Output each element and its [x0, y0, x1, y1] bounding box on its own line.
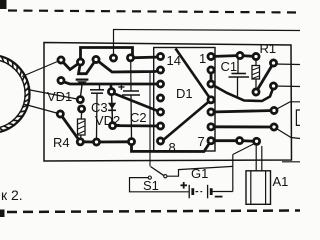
battery G1 [188, 185, 190, 199]
caption k 2. [1, 188, 23, 202]
wire mic to pad P1 [22, 60, 61, 77]
pad VD1 row [58, 77, 64, 83]
trace VD2 pad to pin6 [113, 124, 161, 127]
pad D1 pin4 [208, 97, 214, 103]
trace P3 to pin2 [96, 60, 161, 73]
label R4 [53, 136, 70, 149]
label S1 [143, 179, 159, 192]
wire right pad4 off-board [274, 127, 300, 139]
pad D1 pin9 [157, 123, 163, 129]
label D1 [176, 87, 193, 100]
dashed page border bottom [7, 211, 300, 213]
pad D1 pin5 [208, 109, 214, 115]
wire right pad3 off-board [274, 102, 300, 111]
device A1 leads [255, 146, 257, 171]
pad bottom mid [237, 138, 243, 144]
trace top detour P2 to P5 [81, 48, 133, 63]
trace pin16-pin15 vertical pair [210, 70, 213, 84]
page corner mark top-left [0, 0, 7, 9]
pad right 3 [271, 107, 277, 113]
device A1 body [246, 171, 271, 205]
pad D1 pin3 [208, 81, 214, 87]
label C2 [130, 111, 147, 124]
trace pin1 to C1 row [211, 56, 256, 57]
label A1 [273, 175, 289, 188]
label pin1 [199, 52, 206, 65]
pad right 4 [271, 124, 277, 130]
pad D1 pin14 [157, 53, 163, 59]
pad VD2 bottom [110, 123, 116, 129]
label pin7 [198, 135, 205, 148]
wire node vertical [232, 155, 234, 192]
wire top from pad P4 [114, 30, 301, 59]
microphone BM1 body (circle, cut at left edge) [0, 55, 30, 133]
pad right 2 [270, 83, 276, 89]
IC D1 outline [154, 48, 215, 152]
trace diagonal mic pad to R4 pad [60, 114, 80, 142]
pad R4 bottom [77, 139, 83, 145]
label G1 [191, 167, 208, 180]
pad P5 [127, 55, 133, 61]
capacitor C3 [99, 84, 101, 90]
wire mic to R4 row pad [24, 104, 61, 114]
pad D1 pin1 [208, 53, 214, 59]
wire battery minus to node [213, 191, 233, 193]
pad R1 top [253, 53, 259, 59]
pad mic lower [57, 111, 63, 117]
wire right pad2 off-board [274, 85, 300, 88]
label VD2 [95, 114, 120, 127]
trace bend pin15 to right pad [211, 84, 274, 101]
pad C3 bottom [93, 139, 99, 145]
microphone hatching ticks [0, 56, 30, 131]
pad P4 [110, 55, 116, 61]
pad P2 [77, 59, 83, 65]
net VD2 vertical [112, 92, 113, 126]
pad P1 [58, 57, 64, 63]
wire stub bottom right [282, 161, 300, 163]
trace D1 diagonal lower [162, 100, 211, 141]
trace row6 to right pad [211, 125, 274, 128]
pad D1 pin13 [157, 67, 163, 73]
pad P3 [93, 56, 99, 62]
stub VD2 top pad to row trace [110, 84, 113, 92]
pad VD1 bottom [77, 97, 83, 103]
pad VD2 top [108, 89, 114, 95]
pad right 1 [270, 60, 276, 66]
label VD1 [47, 90, 72, 103]
resistor R1 body [252, 66, 260, 80]
switch S1 [149, 72, 151, 167]
pad D1 pin2 [208, 67, 214, 73]
capacitor C1 [237, 56, 239, 74]
pad bottom A1 [254, 138, 260, 144]
battery minus sign [215, 196, 223, 198]
trace D1 diagonal upper [176, 49, 212, 100]
board outline [44, 43, 292, 162]
resistor R4 body [78, 119, 86, 135]
page corner mark bottom-left [0, 210, 5, 218]
wire node to pad diagonal [233, 143, 256, 155]
pad D1 pin11 [157, 95, 163, 101]
trace R1 bottom diagonal [256, 63, 274, 92]
wire right pad1 off-board [274, 63, 300, 66]
label C3 [91, 101, 108, 114]
diode VD1 [76, 78, 89, 80]
battery plus sign [181, 184, 188, 186]
label pin14 [167, 54, 181, 67]
diode VD2 symbol [108, 103, 116, 109]
pad D1 pin10 [157, 109, 163, 115]
trace row VD1 to pin3 [61, 81, 161, 84]
capacitor C2 [130, 60, 132, 91]
label R1 [260, 42, 277, 55]
trace zigzag P1-P2-P3 [61, 60, 96, 74]
wire mic to VD1 pad [28, 90, 81, 100]
pad R4 top [79, 106, 85, 112]
pad D1 pin12 [157, 81, 163, 87]
pad C2 bottom [128, 139, 134, 145]
pad D1 pin7 [208, 138, 214, 144]
trace P5 to pin14 [131, 56, 161, 60]
pad D1 pin6 [208, 124, 214, 130]
pads [57, 52, 277, 145]
trace bottom row left [80, 141, 256, 152]
pad D1 pin8 [157, 138, 163, 144]
label pin8 [169, 141, 176, 154]
trace row5 to right pad [211, 111, 274, 113]
pad C1 left [237, 52, 243, 58]
connector bracket right edge [296, 110, 300, 125]
pad R1 bottom [253, 89, 259, 95]
label C1 [221, 60, 238, 73]
trace VD2 pad diagonal to pin5 [112, 93, 161, 113]
dashed page border top [8, 11, 300, 13]
